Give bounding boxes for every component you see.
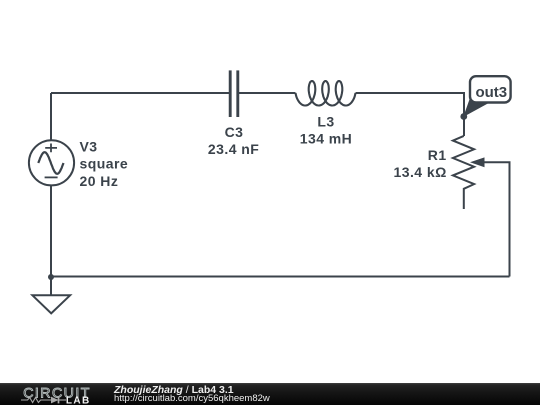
node flag out3 box <box>470 76 511 102</box>
svg-text:out3: out3 <box>475 84 507 101</box>
svg-text:square: square <box>80 156 129 172</box>
wire <box>356 93 465 136</box>
svg-text:V3: V3 <box>80 138 98 154</box>
wiper arrow R1 <box>470 157 485 167</box>
voltage source V3 <box>29 140 74 185</box>
wire <box>239 92 296 94</box>
svg-text:23.4 nF: 23.4 nF <box>208 141 259 157</box>
wire <box>50 93 52 141</box>
node flag out3 pointer <box>463 98 489 117</box>
footer bar <box>0 383 540 405</box>
svg-text:LAB: LAB <box>66 396 91 405</box>
svg-text:C3: C3 <box>225 124 244 140</box>
capacitor C3 <box>230 70 238 117</box>
node junction dot ground <box>48 274 54 280</box>
wire <box>50 185 52 277</box>
wire <box>50 277 52 295</box>
svg-text:134 mH: 134 mH <box>300 131 353 147</box>
CircuitLab logo <box>0 383 110 405</box>
ground <box>32 295 70 313</box>
wire <box>484 162 510 276</box>
node junction dot out3 <box>460 113 467 120</box>
wire <box>51 276 510 278</box>
footer url <box>114 395 270 404</box>
footer title <box>114 386 234 395</box>
svg-text:L3: L3 <box>317 113 334 129</box>
svg-text:R1: R1 <box>428 147 447 163</box>
svg-text:20 Hz: 20 Hz <box>80 173 119 189</box>
inductor L3 <box>296 81 356 106</box>
resistor R1 (potentiometer) <box>453 136 474 209</box>
svg-text:13.4 kΩ: 13.4 kΩ <box>393 164 446 180</box>
wire <box>51 92 230 94</box>
